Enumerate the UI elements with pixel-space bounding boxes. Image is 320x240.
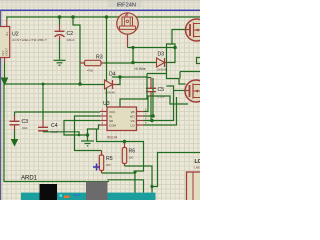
wire hi-wire vertical (132, 48, 134, 63)
node VS (150, 119, 154, 123)
svg-text:R3: R3 (96, 55, 103, 61)
sheet border (blue) (0, 9, 200, 11)
wire D3 cathode up (169, 48, 176, 63)
ground arrow U2 (2, 78, 8, 85)
svg-text:VCC: VCC (1, 50, 5, 56)
mosfet Q2 (186, 19, 208, 41)
LCD1 (187, 172, 202, 202)
svg-text:VCC: VCC (109, 110, 116, 114)
wire C4 column (42, 84, 44, 120)
wire motor bottom (127, 34, 129, 47)
svg-text:HI Wire: HI Wire (135, 67, 146, 71)
svg-text:VS: VS (130, 119, 134, 123)
svg-text:C5: C5 (158, 87, 165, 93)
svg-text:VIOUT: VIOUT (5, 48, 9, 56)
capacitor C4 (38, 120, 79, 135)
svg-text:IP+: IP+ (5, 32, 9, 36)
wire to Q2 gate (172, 30, 186, 48)
wire U2 out (4, 63, 6, 79)
wire VCC line to U3 (15, 111, 101, 113)
sensor U2 (0, 20, 10, 63)
node R3 column bottom (78, 82, 82, 86)
svg-text:ARD1: ARD1 (21, 175, 37, 182)
svg-text:470k: 470k (87, 69, 94, 73)
svg-text:1N4148: 1N4148 (105, 91, 115, 95)
node R5 net (133, 170, 136, 173)
wire hi-wire to D3 (133, 62, 157, 64)
svg-text:IR2104: IR2104 (107, 136, 118, 140)
svg-text:IRF24N: IRF24N (117, 3, 137, 9)
motor component (117, 13, 138, 34)
wire lo-side loop (112, 77, 147, 107)
capacitor C5 (146, 74, 167, 121)
wire rail to R3 column (73, 17, 80, 84)
ground C2 (54, 60, 66, 65)
top band (0, 0, 200, 7)
wire left bus (4, 84, 109, 182)
resistor R5 (99, 151, 135, 201)
arduino board (21, 182, 156, 201)
wire right edge rail (180, 71, 200, 73)
wire mid drop (108, 180, 144, 193)
svg-text:200: 200 (106, 163, 111, 167)
svg-text:100uF: 100uF (67, 38, 75, 42)
svg-text:LM016L: LM016L (195, 166, 201, 170)
svg-text:LCD1: LCD1 (195, 159, 201, 165)
svg-text:U2: U2 (12, 32, 19, 38)
node rail-U3 column (105, 15, 109, 19)
mosfet Q3 (185, 80, 208, 102)
svg-text:0.1uF: 0.1uF (51, 130, 58, 134)
svg-text:200: 200 (129, 156, 134, 160)
capacitor C3 (10, 112, 20, 140)
svg-text:D3: D3 (158, 52, 165, 58)
svg-text:1N4148: 1N4148 (157, 68, 167, 72)
svg-text:R6: R6 (129, 149, 136, 155)
sheet border left (0, 10, 2, 200)
wire R6 top net (97, 129, 144, 171)
node Hi Wire top (131, 46, 134, 49)
svg-text:HO: HO (130, 114, 135, 118)
background grid (0, 0, 200, 200)
wire U3 IN (75, 116, 102, 151)
wire LCD net (152, 153, 200, 187)
wire rail to U3 column (106, 17, 108, 107)
wire U3 SD (64, 121, 100, 136)
node Hi Wire (131, 61, 135, 65)
wire U3 HO (144, 78, 154, 116)
node LCD drop (150, 185, 153, 188)
wire stub loop right edge (197, 58, 201, 64)
ground arrow C3 (12, 140, 18, 146)
svg-text:C2: C2 (67, 31, 74, 37)
svg-text:ACS712ELCTR-05B-T: ACS712ELCTR-05B-T (12, 38, 47, 42)
diode D4 (80, 80, 117, 89)
node COM ground (86, 133, 90, 137)
svg-text:COM: COM (109, 123, 117, 127)
svg-text:C3: C3 (22, 119, 29, 125)
node rail-C2 (58, 15, 62, 19)
svg-text:C4: C4 (51, 123, 58, 129)
wire U3 VS (144, 86, 174, 121)
wire U3 VB (144, 96, 189, 112)
svg-text:U3: U3 (103, 101, 110, 107)
svg-text:R5: R5 (106, 156, 113, 162)
svg-text:10uF: 10uF (22, 126, 29, 130)
diode D3 (157, 58, 169, 67)
ground U3 COM (81, 135, 94, 146)
svg-text:VB: VB (130, 110, 134, 114)
resistor R6 (122, 142, 152, 193)
wire D4 cathode net (117, 77, 120, 85)
wire VCC rail (7, 17, 200, 20)
wire drain chain (167, 44, 186, 84)
IC U3 (100, 107, 147, 131)
wire U3 LO (144, 97, 177, 125)
node R6 top (123, 140, 127, 144)
svg-text:IN: IN (109, 114, 112, 118)
node rail-branch (71, 15, 75, 19)
node C4 tap (42, 83, 45, 86)
node D3/motor (173, 46, 177, 50)
wire Q3 gate (174, 90, 185, 92)
node HO (151, 114, 155, 118)
node D4 out (118, 75, 122, 79)
wire U3 COM (88, 125, 101, 135)
resistor R3 (80, 60, 133, 65)
capacitor C2 (55, 17, 65, 60)
svg-text:LO: LO (130, 123, 135, 127)
probe marker + (93, 164, 100, 171)
